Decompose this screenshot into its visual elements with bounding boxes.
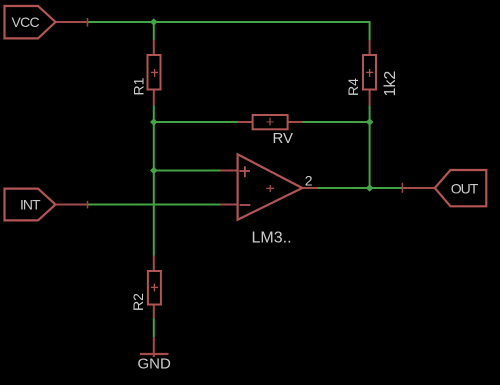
supply flag VCC [5,6,56,38]
wire op-amp plus input [154,170,221,172]
node junction output/feedback [366,184,374,192]
resistor R1 [148,40,161,106]
svg-text:INT: INT [20,197,41,213]
svg-text:GND: GND [138,356,172,373]
flag INT [5,189,56,221]
node junction plus-input tap [150,167,158,175]
svg-text:R2: R2 [130,293,146,311]
pin tick INT [87,201,89,209]
svg-text:2: 2 [305,173,313,189]
svg-text:VCC: VCC [12,14,40,30]
node junction R1/RV [150,118,158,126]
resistor RV [238,115,303,129]
resistor R2 [148,256,161,319]
wire left vertical R1 bottom to R2 top [153,106,155,256]
wire R2 bottom green stub to GND [153,319,155,338]
svg-text:R1: R1 [131,77,147,95]
wire VCC flag pin [56,21,88,23]
svg-text:OUT: OUT [451,181,479,197]
node junction VCC/R1 [150,18,158,26]
wire INT net to minus input [88,204,221,206]
svg-text:R4: R4 [345,78,361,96]
node junction RV/R4 [366,118,374,126]
svg-text:LM3..: LM3.. [252,230,292,247]
ground GND [140,337,169,357]
wire VCC net top horizontal [88,21,370,23]
wire R1 top stub [153,22,155,40]
pin tick OUT [401,183,403,193]
op-amp U1 [221,154,318,219]
wire RV net right [303,121,370,123]
pin tick VCC [87,18,89,27]
wire OUT flag pin [402,187,434,189]
wire INT flag pin [56,204,88,206]
svg-text:1k2: 1k2 [382,71,399,97]
resistor R4 [363,40,376,106]
wire RV net left [154,121,238,123]
wire output net [318,187,403,189]
wire R4 bottom vertical to output junction [369,106,371,189]
wire right vertical to R4 top [369,21,371,40]
svg-text:RV: RV [273,130,294,147]
flag OUT [435,170,487,206]
